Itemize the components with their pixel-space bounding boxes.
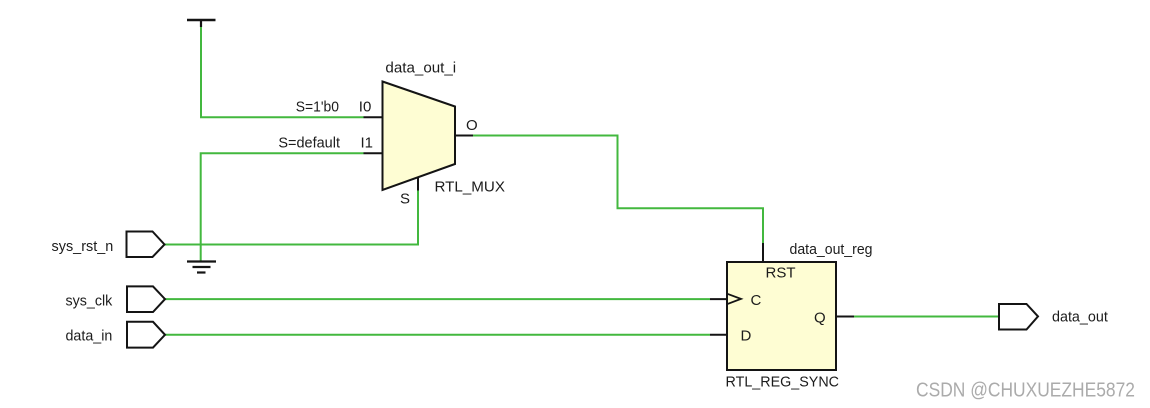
register clock triangle xyxy=(727,294,741,305)
register pin RST stub xyxy=(762,243,764,262)
svg-text:data_out: data_out xyxy=(1052,309,1109,326)
svg-text:S: S xyxy=(400,191,410,208)
wire: mux O to register RST xyxy=(473,136,763,244)
input port sys_rst_n xyxy=(127,232,165,258)
svg-text:data_out_i: data_out_i xyxy=(385,60,456,77)
svg-text:S=1'b0: S=1'b0 xyxy=(296,99,339,116)
wire: power to mux I0 xyxy=(201,27,364,117)
register pin Q stub xyxy=(836,316,854,318)
svg-text:D: D xyxy=(741,328,752,345)
register pin C stub xyxy=(710,298,727,300)
svg-text:RST: RST xyxy=(766,265,796,282)
svg-text:O: O xyxy=(466,117,478,134)
mux pin I1 xyxy=(364,152,383,154)
output port data_out xyxy=(999,304,1038,330)
mux pin S xyxy=(417,178,419,191)
svg-text:I1: I1 xyxy=(361,135,374,152)
svg-text:data_in: data_in xyxy=(66,328,113,345)
input port sys_clk xyxy=(127,286,165,312)
svg-text:sys_rst_n: sys_rst_n xyxy=(52,238,114,255)
svg-text:C: C xyxy=(751,292,762,309)
svg-text:S=default: S=default xyxy=(278,135,340,152)
wire: sys_rst_n to mux S xyxy=(165,190,419,245)
mux pin O xyxy=(455,135,473,137)
wire: register Q to data_out xyxy=(854,316,999,318)
register pin D stub xyxy=(710,334,727,336)
svg-text:I0: I0 xyxy=(359,99,372,116)
svg-text:sys_clk: sys_clk xyxy=(66,293,113,310)
svg-text:data_out_reg: data_out_reg xyxy=(790,241,873,258)
input port data_in xyxy=(127,322,165,348)
mux pin I0 xyxy=(364,116,383,118)
mux data_out_i body xyxy=(383,82,456,191)
svg-text:RTL_MUX: RTL_MUX xyxy=(435,179,506,196)
ground xyxy=(187,262,216,273)
svg-text:Q: Q xyxy=(814,310,826,327)
svg-text:CSDN @CHUXUEZHE5872: CSDN @CHUXUEZHE5872 xyxy=(916,379,1135,402)
power symbol VCC xyxy=(187,20,216,27)
wire: ground net to mux I1 xyxy=(201,153,364,261)
wire: sys_clk to register C xyxy=(165,298,711,300)
register data_out_reg body xyxy=(727,262,836,370)
wire: data_in to register D xyxy=(165,334,711,336)
svg-text:RTL_REG_SYNC: RTL_REG_SYNC xyxy=(726,374,840,391)
